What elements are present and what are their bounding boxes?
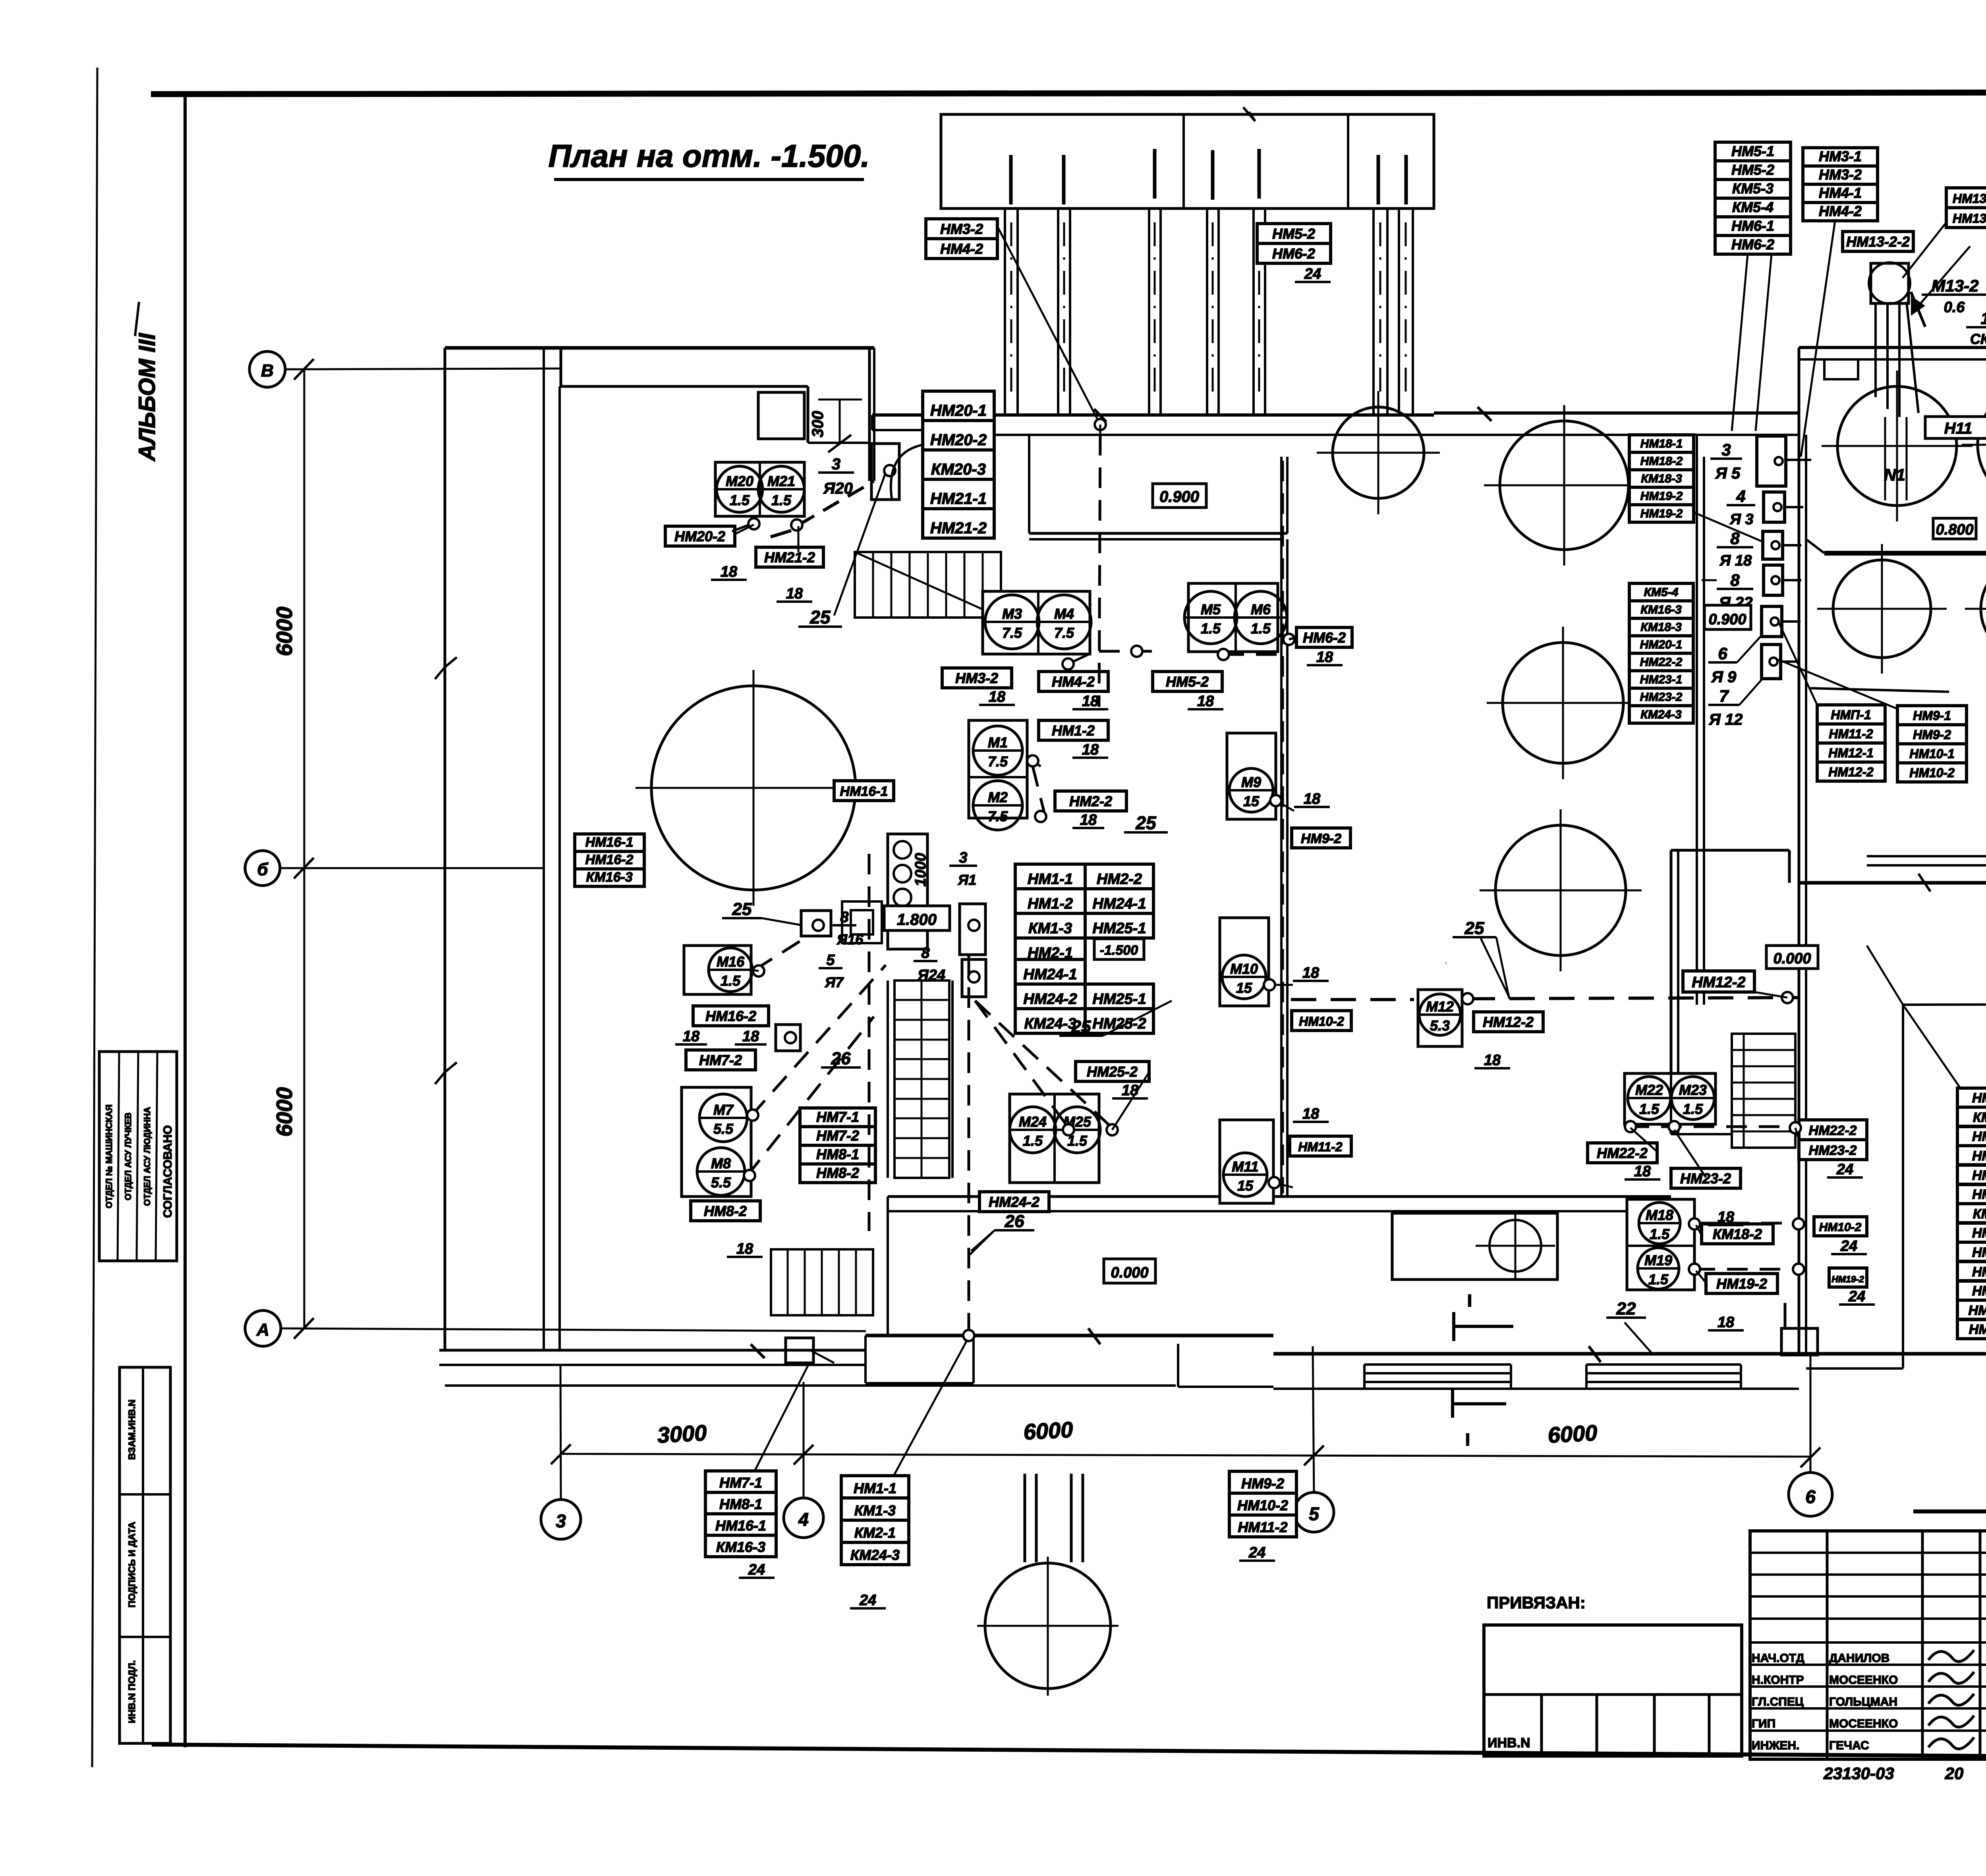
label HM19-2 col bbox=[1829, 1268, 1867, 1287]
svg-text:КМ16-3: КМ16-3 bbox=[716, 1539, 765, 1555]
outer apron right bbox=[1903, 1004, 1986, 1005]
svg-text:18: 18 bbox=[1717, 1314, 1735, 1331]
svg-text:0.6: 0.6 bbox=[1944, 299, 1965, 316]
svg-text:Я16: Я16 bbox=[837, 931, 864, 948]
svg-text:23130-03: 23130-03 bbox=[1823, 1764, 1894, 1783]
axis leader 6 bbox=[1810, 1356, 1812, 1473]
wall break 1 bbox=[1094, 409, 1106, 422]
label 0.000 tallroom bbox=[1766, 946, 1818, 969]
gallery tick 7 bbox=[1404, 155, 1408, 205]
svg-text:20: 20 bbox=[1945, 1764, 1964, 1783]
south wall right bbox=[1273, 1352, 1986, 1356]
svg-text:НАЧ.ОТД: НАЧ.ОТД bbox=[1752, 1652, 1804, 1665]
svg-text:НМ7-1: НМ7-1 bbox=[1972, 1245, 1986, 1260]
svg-text:ПРИВЯЗАН:: ПРИВЯЗАН: bbox=[1487, 1593, 1586, 1612]
svg-text:НМ5-1: НМ5-1 bbox=[1731, 143, 1774, 159]
label HM7-1 col bbox=[800, 1108, 875, 1127]
svg-text:6: 6 bbox=[1805, 1486, 1816, 1507]
tank r4 bbox=[1981, 560, 1986, 658]
gallery tick 1 bbox=[1009, 155, 1013, 205]
svg-text:ГЛ.СПЕЦ: ГЛ.СПЕЦ bbox=[1752, 1695, 1804, 1708]
table HM1-1 2col bbox=[1015, 864, 1085, 889]
cable run M16 diag bbox=[755, 937, 806, 970]
svg-text:НМ4-1: НМ4-1 bbox=[1972, 1168, 1986, 1183]
svg-text:НМ5-2: НМ5-2 bbox=[1731, 162, 1774, 178]
pump M11 bbox=[1220, 1120, 1273, 1203]
svg-text:6: 6 bbox=[1718, 644, 1727, 663]
svg-text:М18: М18 bbox=[1646, 1207, 1673, 1223]
svg-text:24: 24 bbox=[1304, 266, 1321, 282]
svg-text:НМ11-2: НМ11-2 bbox=[1298, 1140, 1343, 1154]
leader HM23-2b bbox=[1674, 1130, 1706, 1177]
svg-text:НМ4-2: НМ4-2 bbox=[1819, 203, 1862, 219]
svg-text:НМ16-1: НМ16-1 bbox=[840, 784, 888, 799]
label HM1-2 bbox=[1039, 720, 1108, 740]
svg-text:М4: М4 bbox=[1054, 606, 1074, 622]
svg-text:М19: М19 bbox=[1644, 1252, 1672, 1268]
svg-text:КМ1-3: КМ1-3 bbox=[854, 1502, 896, 1519]
equip pad 1800 bbox=[842, 901, 882, 943]
svg-text:6000: 6000 bbox=[1023, 1417, 1074, 1444]
label H11 bbox=[1925, 417, 1986, 438]
north wall main bbox=[872, 413, 1434, 417]
svg-text:5.5: 5.5 bbox=[713, 1121, 734, 1137]
svg-text:НМ24-1: НМ24-1 bbox=[1023, 966, 1077, 983]
leader cab5 HMP1 bbox=[1778, 621, 1817, 705]
mixer M13-2 bbox=[1871, 263, 1909, 303]
svg-text:М11: М11 bbox=[1232, 1158, 1258, 1175]
stairs bottom left bbox=[771, 1249, 873, 1315]
cable run Ya24 diag1 bbox=[975, 1001, 1112, 1128]
gallery tick 2 bbox=[1062, 155, 1066, 205]
dock slab left bbox=[864, 1336, 867, 1383]
svg-text:НМ24-2: НМ24-2 bbox=[989, 1194, 1039, 1210]
title block main bbox=[1913, 1509, 1986, 1513]
stairs upper mid bbox=[855, 552, 1001, 618]
svg-text:25: 25 bbox=[732, 899, 752, 919]
svg-text:15: 15 bbox=[1237, 1177, 1254, 1194]
cable run vertical left26 bbox=[868, 854, 871, 1231]
pumps M18 M19 bbox=[1627, 1199, 1694, 1290]
svg-text:КМ18-2: КМ18-2 bbox=[1713, 1226, 1762, 1242]
leader HM13-2-1 bbox=[1903, 222, 1946, 278]
svg-text:НМ16-1: НМ16-1 bbox=[585, 835, 634, 850]
svg-text:0.800: 0.800 bbox=[1936, 521, 1973, 538]
label HM11-2 bbox=[1290, 1136, 1351, 1156]
label HM6-2 mid bbox=[1296, 627, 1352, 647]
svg-text:НМ16-2: НМ16-2 bbox=[705, 1008, 756, 1024]
label HM9-2 bottom bbox=[1229, 1471, 1296, 1493]
label HM13-2-1 top bbox=[1946, 188, 1986, 208]
label -1.500 bbox=[1094, 939, 1144, 959]
cable run M3 link bbox=[1068, 654, 1088, 664]
svg-text:М22: М22 bbox=[1635, 1082, 1663, 1098]
svg-text:Я 9: Я 9 bbox=[1711, 668, 1737, 686]
svg-text:НМ22-2: НМ22-2 bbox=[1597, 1145, 1648, 1161]
label HM13-2-2 left bbox=[1843, 232, 1913, 251]
svg-text:КМ5-4: КМ5-4 bbox=[1644, 586, 1679, 599]
cable run vertical mid26 bbox=[968, 955, 970, 1336]
pipe N1 to tank bbox=[1884, 417, 1886, 500]
tank c5 bbox=[1495, 825, 1626, 955]
svg-text:ИНВ.N ПОДЛ.: ИНВ.N ПОДЛ. bbox=[127, 1660, 137, 1724]
svg-text:1.5: 1.5 bbox=[730, 492, 750, 508]
equip pad upper bbox=[758, 392, 804, 439]
bottom room top wall bbox=[888, 1195, 1671, 1198]
cable run Ya24 diag2 bbox=[975, 1001, 1068, 1128]
cabinet stub lines bbox=[1786, 459, 1811, 461]
svg-text:КМ20-3: КМ20-3 bbox=[931, 461, 986, 478]
north wall pilaster 1 bbox=[1824, 359, 1858, 379]
svg-text:НМ9-1: НМ9-1 bbox=[1972, 1283, 1986, 1299]
svg-text:НМ22-2: НМ22-2 bbox=[1809, 1123, 1857, 1138]
tank r3 bbox=[1833, 560, 1931, 658]
svg-text:18: 18 bbox=[1122, 1082, 1139, 1099]
svg-text:М24: М24 bbox=[1019, 1114, 1047, 1130]
svg-text:КМ5-4: КМ5-4 bbox=[1732, 199, 1773, 215]
right hall south walls bbox=[1867, 855, 1986, 857]
svg-text:4: 4 bbox=[1736, 487, 1745, 506]
label HM21-2 bbox=[756, 547, 823, 567]
gallery tick 6 bbox=[1377, 155, 1380, 205]
svg-text:1.5: 1.5 bbox=[1251, 620, 1271, 637]
label HMP-1 col bbox=[1817, 705, 1885, 724]
cable node M4 bbox=[1131, 646, 1142, 657]
leader M11 18 bbox=[1273, 1183, 1293, 1187]
svg-text:1.5: 1.5 bbox=[721, 973, 741, 989]
board box Ya20 bbox=[871, 444, 899, 500]
pumps M22 M23 bbox=[1625, 1073, 1716, 1124]
board box Ya7 bbox=[776, 1025, 800, 1051]
svg-text:НМ10-2: НМ10-2 bbox=[1909, 766, 1955, 780]
svg-text:3000: 3000 bbox=[657, 1420, 707, 1448]
leader M13-2 lbl bbox=[1918, 246, 1970, 306]
svg-text:ГЕЧАС: ГЕЧАС bbox=[1829, 1739, 1869, 1752]
svg-text:ВЗАМ.ИНВ.N: ВЗАМ.ИНВ.N bbox=[127, 1399, 137, 1460]
svg-text:НМ2-1: НМ2-1 bbox=[1972, 1129, 1986, 1144]
svg-text:300: 300 bbox=[809, 411, 827, 438]
svg-text:18: 18 bbox=[1080, 812, 1097, 828]
svg-text:НМ25-2: НМ25-2 bbox=[1087, 1063, 1138, 1080]
svg-text:М7: М7 bbox=[713, 1102, 734, 1118]
svg-text:1000: 1000 bbox=[912, 853, 929, 887]
svg-text:НМ23-2: НМ23-2 bbox=[1640, 691, 1683, 704]
svg-text:НМ23-2: НМ23-2 bbox=[1809, 1143, 1857, 1158]
svg-text:1.5: 1.5 bbox=[1683, 1101, 1703, 1117]
svg-text:НМ9-2: НМ9-2 bbox=[1913, 728, 1951, 742]
svg-text:М12: М12 bbox=[1426, 998, 1454, 1015]
section mark I bot bbox=[1451, 1389, 1454, 1418]
svg-text:НМ8-1: НМ8-1 bbox=[816, 1146, 859, 1162]
svg-text:М10: М10 bbox=[1230, 961, 1258, 977]
svg-text:НМ9-2: НМ9-2 bbox=[1301, 831, 1341, 846]
pump M16 bbox=[684, 946, 751, 994]
svg-text:НМ21-2: НМ21-2 bbox=[764, 549, 815, 566]
label HM19-2 b bbox=[1706, 1274, 1777, 1293]
svg-text:ИНЖЕН.: ИНЖЕН. bbox=[1752, 1739, 1799, 1752]
svg-text:СОГЛАСОВАНО: СОГЛАСОВАНО bbox=[161, 1125, 174, 1218]
svg-text:АЛЬБОМ III: АЛЬБОМ III bbox=[134, 332, 160, 462]
svg-text:НМ10-2: НМ10-2 bbox=[1819, 1221, 1862, 1234]
svg-text:1.5: 1.5 bbox=[1648, 1271, 1669, 1287]
svg-text:НМ24-1: НМ24-1 bbox=[1092, 896, 1146, 912]
svg-text:НМ19-2: НМ19-2 bbox=[1831, 1274, 1864, 1284]
svg-text:6000: 6000 bbox=[1547, 1420, 1598, 1448]
leader 7/Ya12 bbox=[1739, 677, 1764, 705]
svg-text:КМ18-3: КМ18-3 bbox=[1641, 472, 1682, 485]
svg-text:НМ19-2: НМ19-2 bbox=[1640, 507, 1683, 520]
south wall long 22 bbox=[1799, 881, 1986, 885]
svg-text:НМ3-2: НМ3-2 bbox=[955, 670, 998, 686]
svg-text:3: 3 bbox=[832, 455, 840, 473]
label HM9-2 bbox=[1292, 828, 1350, 848]
leader HM20-2 node bbox=[735, 525, 754, 534]
leader 6/Ya9 bbox=[1737, 635, 1762, 662]
pump M9 bbox=[1227, 733, 1276, 819]
svg-text:НМ16-1: НМ16-1 bbox=[715, 1517, 766, 1534]
svg-text:НМ1-2: НМ1-2 bbox=[1028, 896, 1073, 912]
svg-text:18: 18 bbox=[1302, 965, 1319, 981]
svg-text:НМ12-1: НМ12-1 bbox=[1828, 746, 1874, 760]
axis line B bbox=[285, 369, 560, 369]
cable run M22M23 bbox=[1629, 1125, 1795, 1128]
pump M10 bbox=[1220, 918, 1269, 1006]
cable run M18 bbox=[1696, 1222, 1799, 1225]
svg-text:0.900: 0.900 bbox=[1708, 611, 1746, 628]
south wall dock bbox=[865, 1334, 1273, 1338]
label 0.900 panel bbox=[1704, 605, 1751, 629]
svg-text:НМ9-2: НМ9-2 bbox=[1241, 1475, 1284, 1492]
svg-text:15: 15 bbox=[1243, 793, 1260, 809]
leader bottom 1 bbox=[755, 1365, 808, 1471]
svg-text:3: 3 bbox=[556, 1511, 566, 1531]
svg-text:18: 18 bbox=[1302, 1106, 1319, 1122]
svg-text:М21: М21 bbox=[767, 473, 795, 489]
upper-left room walls bbox=[445, 346, 874, 350]
svg-text:НМ6-1: НМ6-1 bbox=[1972, 1226, 1986, 1241]
pumps M5 M6 bbox=[1188, 583, 1278, 652]
apron hatch left bbox=[1364, 1363, 1511, 1366]
svg-text:КМ1-3: КМ1-3 bbox=[1973, 1110, 1986, 1125]
tank N1 bbox=[1837, 386, 1957, 506]
leader HM5-1b bbox=[1756, 254, 1772, 431]
label 0.900 room bbox=[1153, 484, 1206, 508]
label HM23-2 b bbox=[1671, 1168, 1741, 1188]
svg-text:КМ24-3: КМ24-3 bbox=[850, 1547, 900, 1563]
mixer pipes M13-2 bbox=[1874, 303, 1877, 397]
tank N2 bbox=[1978, 385, 1986, 504]
svg-text:24: 24 bbox=[1840, 1238, 1857, 1255]
label HM3-1 col bbox=[1803, 148, 1878, 166]
svg-text:24: 24 bbox=[859, 1592, 876, 1609]
north wall main 2 bbox=[1434, 411, 1799, 415]
tank c4 bbox=[1503, 643, 1623, 763]
svg-text:25: 25 bbox=[809, 607, 831, 627]
svg-text:8: 8 bbox=[921, 945, 930, 961]
svg-text:25: 25 bbox=[1071, 1017, 1091, 1036]
svg-text:24: 24 bbox=[1248, 1544, 1265, 1561]
axis circle 3 bbox=[541, 1500, 581, 1539]
label HM7-2 bbox=[686, 1050, 755, 1070]
well circle bottom bbox=[985, 1563, 1111, 1689]
leader M9 18 bbox=[1276, 801, 1294, 811]
leader bottom 3 bbox=[810, 1350, 834, 1363]
label HM24-2 low bbox=[979, 1192, 1049, 1212]
svg-text:НМ10-2: НМ10-2 bbox=[1237, 1497, 1288, 1513]
gallery tick 5 bbox=[1258, 149, 1261, 199]
svg-text:НМ3-2: НМ3-2 bbox=[1819, 166, 1862, 183]
svg-text:М3: М3 bbox=[1002, 606, 1022, 622]
svg-text:НМ3-1: НМ3-1 bbox=[1819, 148, 1862, 164]
svg-text:1.5: 1.5 bbox=[1639, 1101, 1660, 1117]
svg-text:А: А bbox=[256, 1320, 269, 1339]
leader 25f bbox=[1172, 1001, 1283, 1040]
axis line A bbox=[281, 1328, 866, 1331]
panel room wall bbox=[1696, 435, 1698, 1005]
tall room 0.000 bbox=[1670, 850, 1673, 1134]
corridor break symbol bbox=[445, 657, 457, 667]
svg-text:М1: М1 bbox=[988, 734, 1008, 751]
svg-text:НМ7-1: НМ7-1 bbox=[719, 1475, 762, 1491]
svg-text:НМ20-1: НМ20-1 bbox=[1640, 638, 1683, 651]
svg-text:НМ8-1: НМ8-1 bbox=[719, 1496, 762, 1512]
cable run M20 diag bbox=[798, 481, 874, 525]
pumps M20 M21 bbox=[715, 462, 804, 516]
svg-text:НМ9-1: НМ9-1 bbox=[1913, 708, 1951, 723]
svg-text:1.5: 1.5 bbox=[1650, 1226, 1670, 1242]
leader HM5-1a bbox=[1732, 254, 1748, 431]
middle wall bbox=[1280, 539, 1283, 1197]
dock slab right bbox=[1177, 1344, 1179, 1387]
svg-text:СК13-2: СК13-2 bbox=[1970, 331, 1986, 347]
svg-text:НМ22-2: НМ22-2 bbox=[1640, 656, 1683, 669]
svg-text:3: 3 bbox=[959, 849, 967, 866]
svg-text:НМ23-2: НМ23-2 bbox=[1680, 1170, 1731, 1187]
svg-text:Н11: Н11 bbox=[1944, 420, 1972, 437]
svg-text:НМ10-1: НМ10-1 bbox=[1909, 747, 1955, 761]
gallery tick 4 bbox=[1211, 150, 1215, 200]
leader KM18-2 bbox=[1696, 1225, 1702, 1235]
svg-text:М13-2: М13-2 bbox=[1931, 276, 1978, 295]
svg-text:18: 18 bbox=[1484, 1052, 1501, 1069]
svg-text:НМ3-1: НМ3-1 bbox=[1972, 1148, 1986, 1164]
svg-text:М16: М16 bbox=[717, 953, 745, 970]
leader M16 node bbox=[751, 970, 759, 971]
axis leader 3 bbox=[560, 1366, 561, 1500]
svg-text:НМ13-2-1: НМ13-2-1 bbox=[1953, 191, 1986, 206]
svg-text:24: 24 bbox=[748, 1561, 765, 1578]
leader HM3-2 bbox=[997, 226, 1100, 425]
leader HM18col bbox=[1694, 512, 1764, 542]
svg-text:ДАНИЛОВ: ДАНИЛОВ bbox=[1829, 1652, 1889, 1665]
cable run M1M2 drop bbox=[1027, 757, 1041, 766]
label HM4-2 mid bbox=[1039, 672, 1108, 691]
pump M12 bbox=[1418, 990, 1462, 1046]
right block west wall bbox=[1798, 347, 1801, 1354]
svg-text:ИНВ.N: ИНВ.N bbox=[1488, 1735, 1530, 1751]
svg-text:0.900: 0.900 bbox=[1159, 488, 1199, 506]
label HM25-2 bbox=[1076, 1062, 1149, 1081]
svg-text:15: 15 bbox=[1236, 980, 1252, 996]
label HM8-2 low bbox=[691, 1201, 760, 1221]
svg-text:Я 3: Я 3 bbox=[1729, 511, 1753, 528]
label HM22-2 b bbox=[1588, 1143, 1657, 1163]
svg-text:НМ24-2: НМ24-2 bbox=[1023, 991, 1077, 1007]
svg-text:ГОЛЬЦМАН: ГОЛЬЦМАН bbox=[1829, 1695, 1897, 1708]
cable run M13-2 drop bbox=[1907, 302, 1918, 413]
svg-text:КМ18-3: КМ18-3 bbox=[1640, 621, 1682, 634]
wall break right bbox=[1918, 874, 1930, 892]
leader cab6 HM91 bbox=[1778, 660, 1897, 709]
svg-text:3: 3 bbox=[1721, 440, 1731, 459]
svg-text:НМ6-2: НМ6-2 bbox=[1272, 245, 1315, 262]
svg-text:НМ6-2: НМ6-2 bbox=[1731, 236, 1774, 253]
label HM20-2 bbox=[665, 526, 735, 546]
svg-text:6000: 6000 bbox=[272, 1087, 297, 1137]
svg-text:МОСЕЕНКО: МОСЕЕНКО bbox=[1829, 1717, 1898, 1730]
svg-text:18: 18 bbox=[786, 585, 803, 602]
svg-text:НМ11-1: НМ11-1 bbox=[1969, 1322, 1986, 1337]
svg-text:КМ5-3: КМ5-3 bbox=[1732, 180, 1773, 197]
svg-text:НМ7-1: НМ7-1 bbox=[816, 1109, 859, 1125]
cable run right of M6 bbox=[1289, 637, 1296, 639]
svg-text:НМ2-2: НМ2-2 bbox=[1097, 871, 1142, 888]
svg-text:НМ1-1: НМ1-1 bbox=[1028, 871, 1073, 888]
svg-text:Я24: Я24 bbox=[917, 967, 945, 984]
north wall right block bbox=[1799, 346, 1986, 349]
svg-text:22: 22 bbox=[1616, 1299, 1636, 1318]
svg-text:КМ1-3: КМ1-3 bbox=[1028, 920, 1072, 937]
sheet border left bbox=[184, 92, 187, 1350]
svg-text:НМ13-2-2: НМ13-2-2 bbox=[1846, 234, 1910, 250]
sheet border top bbox=[151, 92, 1986, 94]
svg-text:I: I bbox=[1465, 1430, 1470, 1449]
svg-text:18: 18 bbox=[1304, 791, 1321, 807]
svg-text:7.5: 7.5 bbox=[988, 753, 1008, 770]
axis circle 5 bbox=[1294, 1492, 1334, 1532]
tank big left bbox=[651, 686, 856, 890]
pumps M1 M2 bbox=[969, 720, 1027, 818]
svg-text:18: 18 bbox=[989, 689, 1006, 705]
svg-text:М8: М8 bbox=[711, 1155, 731, 1172]
svg-text:Я 5: Я 5 bbox=[1715, 465, 1741, 482]
label HM3-2 mid bbox=[942, 668, 1012, 688]
svg-text:НМ16-2: НМ16-2 bbox=[585, 852, 634, 867]
svg-text:НМ1-1: НМ1-1 bbox=[1972, 1090, 1986, 1106]
svg-text:7.5: 7.5 bbox=[1054, 625, 1074, 641]
svg-text:НМ13-2-2: НМ13-2-2 bbox=[1953, 211, 1986, 226]
svg-text:НМ18-2: НМ18-2 bbox=[1640, 455, 1683, 468]
cable run M5M6 bbox=[1223, 653, 1283, 656]
inventory stamp column bbox=[120, 1367, 170, 1743]
svg-text:Я7: Я7 bbox=[825, 974, 844, 990]
corridor east wall bbox=[543, 348, 545, 1350]
svg-text:НМ10-1: НМ10-1 bbox=[1969, 1303, 1986, 1318]
axis leader 4 bbox=[803, 1382, 805, 1498]
svg-text:ОТДЕЛ АСУ ЛЮДИННА: ОТДЕЛ АСУ ЛЮДИННА bbox=[142, 1107, 152, 1206]
switch cabinets column bbox=[1757, 436, 1786, 486]
label KM5-4 col bbox=[1629, 583, 1693, 601]
svg-text:М6: М6 bbox=[1251, 601, 1271, 618]
svg-text:М9: М9 bbox=[1241, 774, 1261, 790]
well pipes bbox=[1024, 1474, 1026, 1562]
svg-text:НМ2-2: НМ2-2 bbox=[1069, 793, 1112, 809]
svg-text:5.5: 5.5 bbox=[711, 1174, 731, 1191]
cable run M12 horiz bbox=[1291, 998, 1414, 1001]
svg-text:18: 18 bbox=[683, 1028, 700, 1045]
svg-text:НМ1-2: НМ1-2 bbox=[1052, 722, 1095, 739]
leader 25a line bbox=[834, 475, 885, 616]
